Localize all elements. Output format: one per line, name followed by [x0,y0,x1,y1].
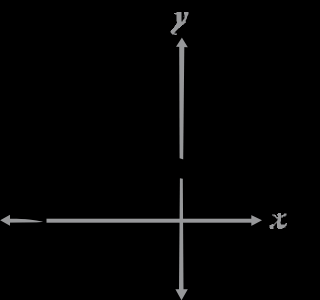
x-axis main segment (wire) [47,219,252,223]
y-axis top arrowhead [176,38,188,48]
label y [171,12,189,35]
x-axis left tail wedge (wire) [10,219,43,223]
label x [269,213,286,229]
y-axis bottom arrowhead [175,289,187,300]
y-axis upper segment (wire) [179,47,184,160]
y-axis lower segment (wire) [179,178,184,289]
x-axis right arrowhead [251,215,262,226]
x-axis left arrowhead [0,215,10,226]
